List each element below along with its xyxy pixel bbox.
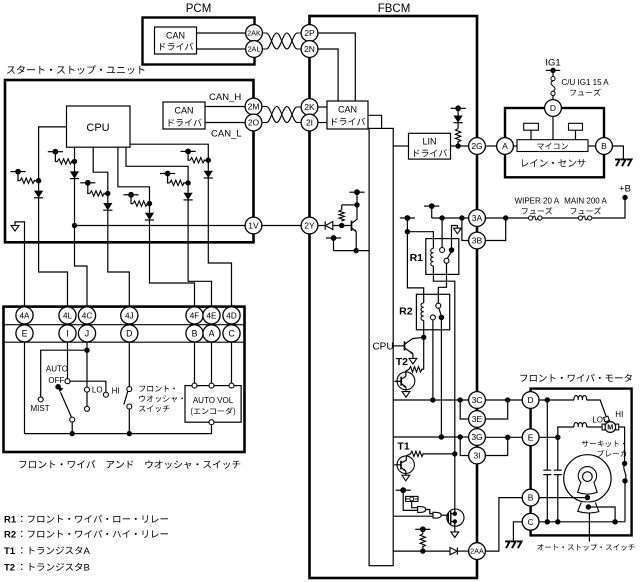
wire node G to diode [187,183,189,193]
start-stop unit box [5,80,254,242]
diode D1f [145,213,154,220]
wire R1 NC contact to R2 contact [438,263,446,303]
svg-text:B: B [601,141,607,151]
diode D1g [184,193,193,200]
wire E line [539,436,558,438]
wire collector to supply [356,192,358,205]
node 3C-R2 contact [430,397,435,402]
wire T1 emitter to ground arrow [405,471,407,475]
supply stub circuit F [123,194,138,196]
svg-text:LO: LO [592,415,603,424]
washer switch contact [127,387,132,392]
wire coil to LO brush [587,400,607,417]
svg-text:LO: LO [92,386,103,395]
node G [185,180,190,185]
wire R1 moving contact to ground arrow [452,226,458,251]
PCM module box [143,18,255,65]
wire washer bottom to rail [128,409,130,434]
wire node B to diode [74,162,76,172]
supply stub circuit A [10,171,25,173]
wire 3C to D [485,399,522,401]
rain sensor label [522,159,586,167]
pin 2AL [246,41,263,58]
pin C (motor) [522,513,539,530]
svg-text:3I: 3I [473,451,480,461]
wire diode to 2AA [457,550,468,552]
wire 2N to CAN driver [318,49,338,101]
wire 3E to 3C line [485,400,507,419]
LO lower contact [85,406,90,411]
wire rotary common to rail [71,422,73,434]
svg-text:4J: 4J [125,311,134,320]
pin 2AA [469,543,486,560]
wire R2 coil node to resistor R12 [423,337,425,369]
svg-text:CAN: CAN [338,105,357,115]
relay R1 moving contact [449,247,455,253]
wire fuse to D pin [552,96,554,100]
left brush [602,424,605,430]
svg-text:D: D [528,395,534,405]
armature circle [564,455,611,502]
supply stub for emitter rail [326,237,341,239]
CAN driver U10 (PCM) [155,27,197,54]
wire B to ground [612,146,623,159]
wire C out to ground [513,522,522,541]
wire J to MIST contact [41,350,87,397]
svg-text:+B: +B [619,184,631,195]
svg-text:C/U IG1 15 A: C/U IG1 15 A [562,78,610,87]
wire stub down to rail [431,206,433,218]
resistor R10 (2G chain) [455,129,460,143]
encoder contact A [209,383,214,388]
diode D1a [34,191,43,198]
CAN driver U11 (FBCM) [327,101,368,129]
logic gate G1 [418,507,426,513]
node 3A-3B branch [503,215,508,220]
wiper motor label [520,374,631,382]
wire Q11 emitter to ground arrow [412,354,414,359]
node 3C-3E [505,397,510,402]
supply stub pull-up 2AA [415,528,430,530]
svg-text:B: B [192,329,198,339]
svg-text:T1: T1 [397,441,409,453]
svg-text:J: J [85,329,89,339]
node 3G-3I branch [458,434,463,439]
pin D (motor) [522,392,539,409]
wire CPU to node G [126,147,188,183]
pin 3I [469,447,486,464]
wire A to encoder [211,342,213,383]
capacitor C2 [557,437,559,470]
encoder box [185,386,241,423]
wire AUTO to HI contact [70,381,106,392]
pin 2Y [301,217,318,234]
wire gate1 to gate2 [426,510,433,514]
resistor R13 (T1 collector) [410,451,423,456]
svg-text:4D: 4D [226,311,237,320]
wire between fuses [542,217,578,219]
resistor R12 (T2 collector) [409,367,422,372]
svg-text:C: C [528,517,534,527]
wire diode through 1V rail to connector 4C [75,179,88,307]
svg-text:CAN: CAN [166,31,185,41]
diode D1c [103,203,112,210]
wire diode to connector 4D [208,178,231,307]
wire resistor top to collector line [342,204,357,206]
wire node F to diode [149,204,151,213]
relay R2 moving contact [439,315,445,321]
armature coil HI [574,423,587,427]
supply stub circuit E [181,150,196,152]
svg-text:A: A [502,141,508,151]
svg-text:2P: 2P [304,28,315,38]
pin 4E [203,307,220,324]
wire +B down to fuse line [592,198,625,219]
wire microcomputer to B pin [588,145,596,147]
node collector junction [354,202,359,207]
svg-text:2G: 2G [471,141,482,151]
wire +B rail to 3A [432,217,469,219]
wire E up to HI coil line [558,427,574,437]
diode D11 (2Y input) [324,221,326,229]
wire resistor to T2 collector [406,369,409,376]
svg-text:D: D [126,329,132,339]
wire CAN driver to pin 2AL [197,48,246,50]
wire source to ground arrow [454,522,456,532]
wire resistor to T1 collector [406,454,410,461]
wire element2 to microcomputer [575,130,577,140]
pin C [223,325,240,342]
pin B (sensor) [596,138,613,155]
svg-text:4E: 4E [206,311,217,320]
svg-text:4A: 4A [19,311,30,320]
wire R1 coil bottom to long line [433,266,454,454]
wire CPU to 3C [393,399,468,401]
svg-text:CPU: CPU [86,122,109,134]
svg-text:MIST: MIST [31,404,50,413]
wire R2 coil bottom [423,321,425,338]
node +B [622,195,627,200]
svg-text:HI: HI [112,387,120,396]
pin A (sensor) [497,138,514,155]
wire I to AUTO contact [67,342,69,379]
pin 2G [469,138,486,155]
connector pin stems [24,316,26,334]
wire right brush to breaker [619,427,625,464]
relay R2 box [416,294,449,330]
wire 3I to 3G line [485,437,507,455]
svg-text:R2: R2 [399,306,413,318]
svg-text:CAN: CAN [174,106,193,116]
washer switch arm [124,392,128,405]
diode D12 (2AA) [450,548,457,555]
pin J [78,325,95,342]
leader to auto-stop label [588,513,590,542]
connector row separator 2 [4,341,245,343]
wire diode to connector 4J [108,210,130,306]
svg-text:E: E [22,329,28,339]
wire branch to 3I [460,437,468,456]
svg-text:2N: 2N [304,44,315,54]
wire LO contact pair [86,392,88,406]
wire cam to C rail [588,507,615,522]
node rail start [72,223,77,228]
supply stub for +B rail [424,205,439,207]
LO contact [85,387,90,392]
OFF contact (moving) [55,384,61,390]
wire 2K to CAN driver [318,106,327,108]
svg-text:2AA: 2AA [470,547,484,556]
CPU box (FBCM) [369,128,393,565]
node 3G-R2 moving contact [439,434,444,439]
wire node E2 to diode [207,160,209,171]
switch unit box [4,307,245,452]
transistor T1 (with circle) [397,456,414,473]
auto-stop cam plate [578,502,599,513]
wire E common rail [25,342,212,434]
svg-text:2O: 2O [248,118,260,128]
svg-text:D: D [550,103,556,113]
fuse C/U IG1 15A [551,77,555,81]
svg-text:3G: 3G [471,432,482,442]
wire 3B to branch [485,218,505,241]
node B contact [585,495,590,500]
wire diode to connector 4E [188,200,211,307]
wire CAN driver to CPU [368,115,382,128]
svg-text:T1: T1 [4,546,16,557]
sensor element 2 [569,123,583,130]
relay R1 box [426,239,459,275]
svg-text:R2: R2 [4,530,16,541]
start-stop unit label [7,65,145,74]
encoder bottom contact [209,420,214,425]
svg-text:A: A [209,329,215,339]
wire stub to rail [333,238,335,251]
svg-text:CAN_H: CAN_H [209,92,241,103]
svg-text:CAN_L: CAN_L [211,129,242,140]
node 3C-3E branch [458,397,463,402]
pin 4C [78,307,95,324]
svg-text:3A: 3A [472,213,483,223]
node emitter rail junction [354,248,359,253]
resistor R14 (2AA pull) [422,529,424,534]
wire branch to 3E [460,400,468,419]
MIST contact [38,397,43,402]
wire resistor to 2G node [457,141,459,146]
svg-text:4F: 4F [190,311,200,320]
wire element1 to microcomputer [530,130,532,140]
wire rail to CPU [334,250,370,252]
svg-text:A: A [84,546,91,557]
wire oscillator to gate1 [412,501,418,507]
pin 1V [245,217,262,234]
wire node C to diode [107,194,109,204]
AUTO contact [65,379,70,384]
wire B to commutator [539,497,588,499]
node rail-3B branch [459,215,464,220]
wire A pin to microcomputer [513,145,517,147]
resistor R1b [57,159,72,164]
pin A [203,325,220,342]
wire C to encoder [231,342,233,383]
relay R1 common contact [440,248,445,253]
diode D1b [70,171,79,178]
relay R1 NC contact [444,258,449,263]
svg-text:IG1: IG1 [545,58,560,69]
pin I [59,325,76,342]
CPU box (unit) [67,106,131,147]
svg-text:2K: 2K [304,102,315,112]
svg-text:2I: 2I [306,118,313,128]
pin 3A [469,210,486,227]
ground arrow (unit, to 4A) [15,222,25,307]
pin 2K [301,99,318,116]
oscillator X1 [406,496,418,501]
wire CPU to node A [39,127,67,181]
pin 4L [59,307,76,324]
HI contact [103,392,108,397]
wire 2Y to diode D11 [318,225,325,227]
wire diode to connector 4F [150,220,195,307]
encoder contact C [229,383,234,388]
ground (motor C) [505,541,521,548]
svg-text:2AK: 2AK [247,29,261,38]
supply stub for relay coils [400,217,415,219]
wire diode to node [333,225,352,227]
wire 3G to E [485,436,522,438]
svg-text:3C: 3C [472,395,483,405]
wiper motor box [531,389,632,536]
pin 2P [301,25,318,42]
relay R2 coil [421,303,424,321]
fuse MAIN 200A [578,216,582,220]
switch unit caption [19,460,240,469]
node J branch [84,348,89,353]
node rail-washer [127,431,132,436]
washer switch label [139,385,175,391]
resistor R1c [90,191,105,196]
svg-text:MAIN 200 A: MAIN 200 A [564,197,607,206]
pin 3B [469,232,486,249]
svg-text:2AL: 2AL [248,45,261,54]
pin 4J [121,307,138,324]
wire CAN driver to 2M [205,106,245,108]
twisted pair CAN bus unit-FBCM [263,107,301,123]
FBCM module box [310,16,478,578]
wire CAN driver to pin 2AK [197,32,246,34]
rain sensor box [505,108,604,177]
supply stub for Q10 collector [349,191,364,193]
wire CPU to node C [93,147,108,193]
transistor T2 (with circle) [397,372,415,390]
CAN driver U1 (unit) [163,102,205,129]
svg-text:3B: 3B [472,236,483,246]
LIN driver U12 [409,133,451,159]
pin 2N [301,41,318,58]
node resistor-2AA line [420,548,425,553]
svg-text:B: B [84,563,90,574]
wire stub down to gate input [403,490,417,510]
wire B out to 2AA [485,498,522,551]
svg-text:2M: 2M [248,102,260,112]
wire D to coil (LO) [539,399,574,401]
svg-text:C: C [228,329,235,339]
wire 2I to CAN driver [318,122,327,124]
svg-text:PCM: PCM [186,3,212,15]
relay R1 coil [431,248,434,266]
pin 3G [469,429,486,446]
relay R2 NC contact [430,315,435,320]
wire 2P to CAN driver [318,33,355,101]
svg-text:B: B [528,493,534,503]
washer lower contact [127,404,132,409]
wire fuse to 3A [485,217,528,219]
svg-text:AUTO VOL: AUTO VOL [193,396,234,405]
node A [36,178,41,183]
wire 2G to A [485,145,496,147]
pin B (motor) [522,489,539,506]
pin 4F [186,307,203,324]
node E2 [206,158,211,163]
MOSFET Q12 [447,509,464,526]
wire Q10 emitter to CPU rail [355,232,357,251]
relay R2 switch arm [439,308,441,315]
circuit breaker label [582,440,625,447]
ground arrow (MOSFET source) [451,532,459,538]
wire node A to diode [38,181,40,191]
svg-text:M: M [607,423,613,432]
pin E [16,325,33,342]
wire CPU to LIN driver [393,145,408,147]
wire 1V to 2Y [262,225,301,227]
svg-text:R1: R1 [4,515,17,526]
motor M circle [605,422,616,433]
wire gate2 to MOSFET gate [441,514,448,516]
twisted pair CAN bus PCM-FBCM [262,33,301,49]
fuse WIPER 20A [529,216,533,220]
wire CPU to T2 base [394,380,401,382]
wire ground rail to 1V [75,225,246,227]
node B [72,159,77,164]
wire resistor to long line [422,453,454,455]
pin 4A [16,307,33,324]
wire CPU to diode D12 [393,550,450,552]
wire B to encoder [194,342,196,383]
svg-text:LIN: LIN [422,137,436,147]
resistor R1g [170,180,185,185]
wire CPU to Q11 base [393,345,404,347]
pin 3E [469,411,486,428]
node 3G-3I [505,435,510,440]
logic gate G2 [433,512,441,518]
svg-text:1V: 1V [248,221,259,231]
pin 2O [245,114,262,131]
pin 2M [245,98,262,115]
pin B [186,325,203,342]
node 2Y base junction [339,223,344,228]
wire CPU to 3G rail [393,436,468,438]
ground arrow (Q11 emitter) [409,358,417,364]
svg-text:3E: 3E [472,414,483,424]
pin 2I [301,114,318,131]
right brush [616,424,619,430]
wire J down [86,342,88,350]
resistor R11 (2Y pull-up) [341,219,343,222]
supply stub oscillator [396,489,411,491]
wire rail to R1 common contact [441,218,443,248]
resistor R1a [20,178,35,183]
node 2G junction [455,143,460,148]
